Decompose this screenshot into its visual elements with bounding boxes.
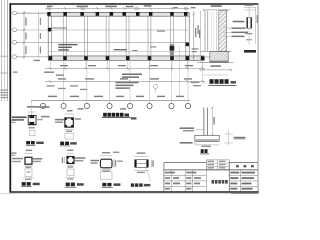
C dim above	[25, 152, 33, 154]
top axis mini bubbles	[48, 7, 188, 10]
interior beam 3	[105, 16, 107, 56]
XJ bottom dim text	[202, 146, 212, 147]
B right dim text	[75, 118, 81, 120]
tank left wall lines	[204, 11, 206, 52]
A right dim text	[41, 116, 50, 118]
tank footing top line	[200, 51, 232, 53]
main divider line	[164, 169, 258, 171]
right dim rotated text	[195, 28, 200, 38]
interior beam 6	[169, 16, 171, 56]
plan interior note text	[58, 44, 77, 51]
right extension to bubbles	[202, 61, 204, 85]
A leader text left	[12, 116, 27, 118]
note cluster mid	[116, 82, 139, 89]
wall detail dim top1	[244, 6, 256, 8]
axis line row2	[16, 29, 188, 31]
D dim above	[67, 152, 74, 154]
signature grid left	[164, 170, 206, 192]
bottom dim ticks	[49, 67, 204, 83]
interior small text right bay	[133, 31, 199, 53]
D dim below	[67, 165, 74, 167]
J dim below	[134, 170, 148, 172]
B left leader text	[55, 119, 64, 121]
watermark text bottom right	[231, 193, 258, 194]
tank wall inner line	[216, 11, 218, 52]
top dimension line	[45, 7, 190, 9]
left margin tick 1	[1, 55, 8, 58]
left margin line 3	[6, 0, 9, 101]
tank bottom dim line 2	[204, 74, 228, 76]
tank bottom dim text	[211, 65, 222, 67]
D right leader text	[75, 157, 86, 159]
secondary axis line	[48, 50, 189, 52]
J diagonal leader	[146, 168, 152, 182]
top columns	[47, 12, 187, 16]
E right dim	[113, 159, 115, 168]
project name cell	[228, 163, 230, 192]
left wall	[47, 13, 49, 61]
wall detail leader text	[233, 21, 245, 23]
D footing outline	[67, 169, 74, 176]
left grid bubbles	[13, 11, 17, 59]
left wall mid column	[48, 28, 51, 31]
title block left edge	[163, 163, 165, 192]
C column section	[25, 157, 32, 164]
E left leader label	[91, 160, 100, 162]
axis line row1 stub	[16, 12, 48, 14]
left axis stubs to plan	[17, 13, 48, 57]
XJ wall line left	[203, 108, 205, 136]
left margin line 2	[3, 0, 6, 101]
E column section rounded	[100, 159, 112, 168]
axis line row3	[16, 41, 188, 43]
XJ elevation text	[234, 137, 246, 139]
tank bottom dim line 1	[200, 69, 232, 71]
J dim above	[134, 155, 148, 157]
caption D	[66, 183, 70, 187]
revision cells stack	[206, 160, 229, 170]
B corner dots	[65, 118, 73, 127]
XJ right dim line	[211, 108, 213, 137]
XJ bottom dim line	[195, 144, 219, 146]
caption tank detail	[210, 79, 229, 84]
right info grid	[229, 170, 258, 192]
project name text	[212, 180, 228, 184]
beam 6 column node	[170, 46, 175, 51]
wall detail lower marks	[245, 33, 253, 34]
B dim below	[64, 128, 74, 130]
revision cell texts	[208, 161, 226, 169]
wall detail right dim text	[257, 15, 258, 23]
J footing plan rect	[135, 160, 149, 168]
wall detail dim text	[245, 4, 254, 5]
C bottom dim	[23, 177, 35, 179]
right wall	[185, 16, 187, 56]
C footing outline	[25, 169, 32, 177]
right wall mid columns	[185, 43, 189, 47]
interior beam 2	[84, 16, 86, 56]
caption J	[131, 183, 134, 186]
caption XJ	[201, 149, 204, 153]
E dim above	[100, 155, 112, 157]
wall detail right dim	[255, 7, 257, 44]
wall detail dim top2	[244, 9, 256, 11]
XJ leader label lower	[194, 143, 197, 145]
tank left dim rotated text	[198, 25, 199, 34]
interior beam 4	[125, 16, 127, 56]
wall detail leader line	[238, 21, 247, 23]
caption wall detail	[244, 50, 256, 53]
D corner dots	[67, 157, 74, 164]
right info texts	[230, 172, 255, 190]
tank rebar lines	[210, 12, 212, 51]
beam 6 dark wall segment	[170, 44, 174, 56]
sheet right border	[257, 3, 260, 192]
A dim above	[28, 111, 36, 113]
partition room wall horizontal	[48, 26, 66, 28]
approval row text	[236, 165, 239, 167]
bottom axis line	[31, 99, 190, 101]
left margin line 1	[0, 0, 3, 101]
interior beam 5	[147, 16, 149, 56]
bottom columns	[49, 56, 205, 60]
column extension stubs	[50, 61, 202, 69]
B dim above	[64, 113, 74, 115]
caption B	[60, 142, 64, 145]
bottom beam strip	[48, 56, 205, 60]
C left leader text	[12, 158, 23, 160]
A footing outline below	[29, 131, 35, 136]
sheet left border	[9, 3, 11, 192]
signature texts left	[165, 172, 201, 190]
tank dim line top	[203, 9, 230, 11]
A column section	[28, 115, 36, 124]
extra dim smudges	[47, 85, 88, 90]
wall detail rect	[247, 17, 252, 28]
interior beam 1	[62, 16, 64, 56]
wall detail centerline	[248, 6, 250, 46]
tank wall leader texts	[232, 27, 249, 37]
left secondary dim line	[38, 11, 40, 58]
tank footing step	[203, 56, 210, 58]
tank footing bottom line	[197, 62, 234, 64]
XJ slab rebar line	[196, 139, 219, 141]
caption E	[102, 183, 106, 186]
sheet bottom shadow	[0, 192, 260, 195]
B column section	[65, 118, 73, 127]
tank wall leader lines	[223, 27, 231, 36]
E dim below	[100, 169, 112, 171]
B footing outline below	[65, 133, 73, 139]
D bottom dim	[65, 177, 76, 179]
left dim text smudges	[25, 18, 26, 55]
left dimension line	[23, 11, 25, 59]
right side dim line of plan	[193, 11, 195, 61]
XJ wall line right	[206, 108, 208, 136]
border label mark 1	[12, 120, 17, 121]
left margin text cluster	[1, 90, 9, 91]
interior extension line	[179, 46, 181, 98]
tank dim text 2000	[211, 5, 222, 7]
bottom note text block	[114, 49, 142, 78]
C right leader text	[33, 158, 43, 160]
bottom dim line 2	[45, 80, 205, 82]
border label mark 2	[12, 153, 17, 154]
A extension line up	[31, 101, 33, 115]
top beam strip	[48, 13, 190, 17]
bottom dim line 1	[45, 68, 205, 70]
left margin tick 2	[1, 72, 8, 75]
C dim below	[25, 165, 33, 167]
top dim text smudges	[47, 5, 195, 8]
XJ right dim rotated text	[213, 117, 214, 125]
axis line row4 stub	[16, 56, 48, 58]
D left dim	[64, 157, 66, 164]
tank left dim line	[200, 11, 202, 63]
tank hatched wall	[219, 11, 227, 52]
J right dim	[150, 160, 152, 168]
bottom dim text row1	[13, 60, 193, 80]
D column section	[67, 157, 74, 164]
caption A	[26, 141, 30, 144]
caption C	[22, 182, 26, 186]
title block outer top edge	[164, 162, 258, 164]
small leader bubble	[153, 84, 157, 88]
XJ right small dim	[225, 133, 234, 135]
right end marks	[191, 82, 202, 87]
caption foundation plan	[102, 113, 137, 120]
bubble extension lines	[64, 61, 188, 104]
A dim below	[28, 125, 36, 127]
E footing outline	[100, 172, 112, 179]
tank footing hatched mass	[210, 52, 228, 63]
XJ leader label upper	[196, 129, 204, 131]
XJ slab	[195, 135, 219, 141]
sheet bottom border	[9, 191, 258, 193]
bottom axis dim text	[27, 96, 184, 110]
bottom grid bubbles	[40, 103, 190, 108]
sheet top border	[9, 3, 258, 5]
